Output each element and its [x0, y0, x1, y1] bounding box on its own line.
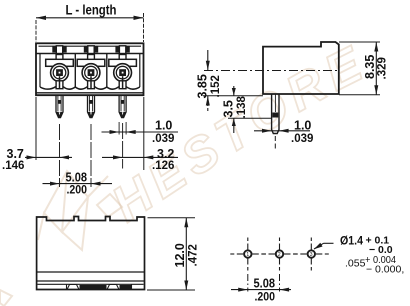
- side pin centerline: [274, 136, 276, 151]
- bottom view inner line 1: [37, 271, 145, 273]
- svg-text:12.0: 12.0: [173, 243, 187, 267]
- screw 1: [51, 64, 69, 82]
- dimension 1.0 / .039 front: [102, 119, 179, 146]
- svg-text:.329: .329: [377, 57, 389, 79]
- strip tab 2: [84, 46, 98, 53]
- svg-text:1.0: 1.0: [294, 118, 311, 132]
- extension line pin notch: [228, 117, 272, 119]
- pin centerlines front: [59, 124, 61, 187]
- bottom view inner line 2: [37, 280, 145, 282]
- dimension 3.5 / .138: [222, 86, 249, 133]
- front view body outline: [36, 43, 144, 95]
- watermark logo: [0, 171, 122, 306]
- svg-text:8.35: 8.35: [363, 55, 377, 79]
- wire entry 1: [46, 59, 74, 66]
- svg-text:2: 2: [278, 252, 281, 258]
- dimension 5.08 / .200: [43, 171, 113, 197]
- svg-text:5.08: 5.08: [66, 171, 88, 185]
- svg-text:Ø1.4: Ø1.4: [340, 236, 364, 248]
- strip tab 3: [115, 46, 129, 53]
- svg-text:1.0: 1.0: [155, 119, 172, 133]
- screw 3: [114, 64, 132, 82]
- svg-text:.126: .126: [152, 160, 174, 172]
- pin 1 front: [56, 95, 63, 117]
- svg-text:.200: .200: [67, 185, 88, 197]
- front view inner side lines: [39, 54, 41, 88]
- svg-text:.039: .039: [291, 133, 313, 145]
- front view strip line: [36, 53, 144, 55]
- wire entry 3: [109, 59, 137, 66]
- drill hole 3: [294, 238, 329, 271]
- tab below screw 3: [119, 81, 126, 89]
- svg-text:.472: .472: [188, 244, 200, 266]
- svg-text:3.7: 3.7: [7, 147, 24, 161]
- svg-text:L - length: L - length: [66, 3, 117, 18]
- pin 3 front: [119, 95, 126, 117]
- leader to hole 3: [314, 243, 334, 249]
- svg-text:3: 3: [310, 252, 313, 258]
- extension line body bottom left: [203, 95, 263, 97]
- pin 2 front: [88, 95, 95, 117]
- svg-text:.039: .039: [152, 133, 174, 145]
- dimension 1.0 / .039 side: [254, 118, 313, 145]
- svg-text:.055: .055: [345, 258, 366, 270]
- svg-text:.152: .152: [210, 75, 222, 97]
- side view centerline: [204, 70, 340, 72]
- screw 2: [82, 64, 100, 82]
- unit 3 (cx 122.6): [109, 46, 137, 89]
- bottom view outline: [37, 217, 145, 290]
- svg-text:.146: .146: [2, 160, 24, 172]
- front bottom double line: [36, 92, 144, 94]
- svg-text:3.85: 3.85: [196, 74, 210, 98]
- hole tolerance text: [340, 235, 404, 276]
- svg-text:− 0.000,: − 0.000,: [366, 264, 404, 276]
- svg-text:3.2: 3.2: [157, 147, 174, 161]
- unit 1 (cx 59.5): [46, 46, 74, 89]
- dimension 3.7 / .146: [2, 147, 72, 172]
- wavy bottom contour: [40, 87, 140, 89]
- dimension L - length: [36, 3, 144, 43]
- drill hole 2: [262, 238, 297, 292]
- tab above screw 3: [119, 55, 126, 60]
- wire entry 2: [77, 59, 105, 66]
- tab below screw 1: [56, 81, 63, 89]
- left body extension line: [35, 97, 37, 160]
- tab above screw 2: [88, 55, 95, 60]
- svg-text:.200: .200: [255, 292, 276, 304]
- side view pin: [272, 94, 279, 134]
- front view inner top line: [39, 45, 142, 47]
- drill hole 1: [230, 238, 265, 292]
- bottom view feet: [38, 284, 144, 289]
- right body extension line: [143, 97, 145, 170]
- front view dividers: [74, 54, 76, 88]
- dimension 8.35 / .329: [339, 42, 389, 95]
- svg-text:1: 1: [246, 252, 249, 258]
- tab above screw 1: [56, 55, 63, 60]
- dimension 5.08 / .200 (drill): [231, 277, 291, 304]
- svg-text:5.08: 5.08: [254, 277, 276, 291]
- unit 2 (cx 91): [77, 46, 105, 89]
- svg-text:.138: .138: [236, 96, 248, 119]
- dimension 3.2 / .126: [102, 147, 178, 172]
- svg-text:3.5: 3.5: [222, 100, 236, 117]
- strip tab 1: [52, 46, 66, 53]
- dimension 3.85 / .152: [196, 50, 223, 111]
- watermark text HESTORE: [102, 33, 376, 232]
- side view body: [263, 42, 339, 94]
- dimension 12.0 / .472: [147, 218, 200, 290]
